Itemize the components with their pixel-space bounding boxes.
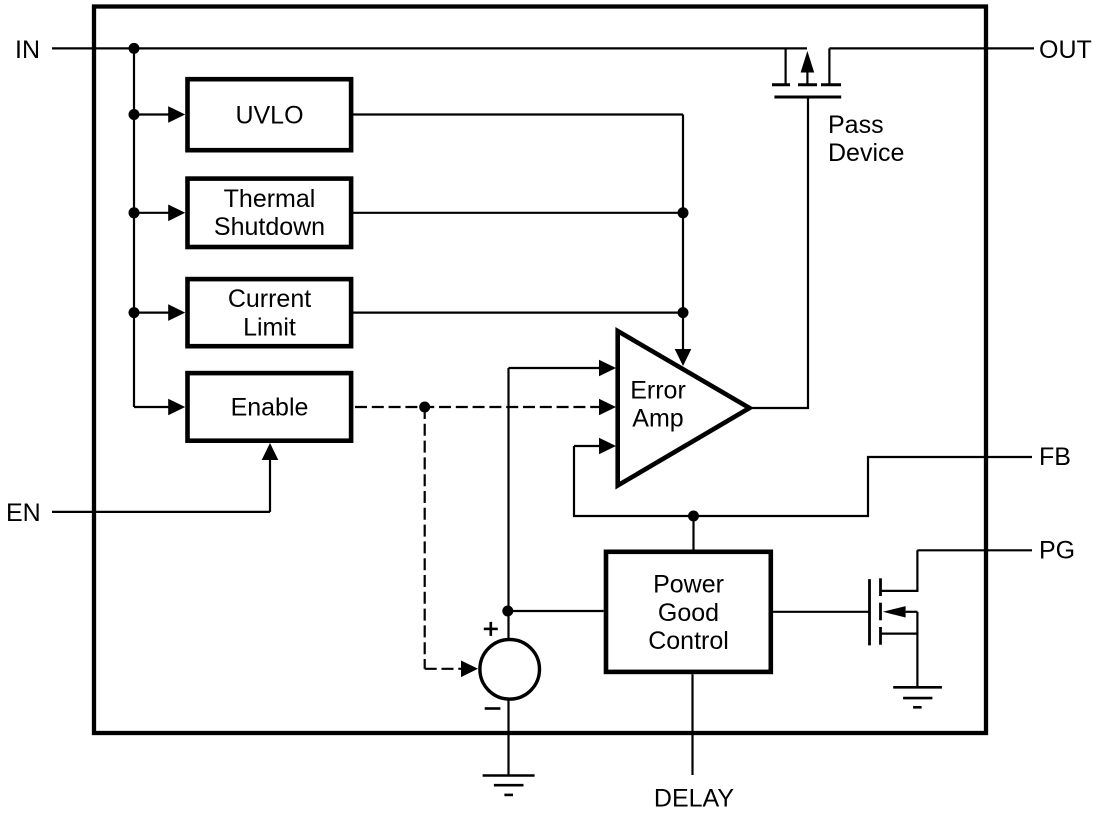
svg-text:OUT: OUT xyxy=(1039,36,1092,64)
svg-text:Enable: Enable xyxy=(231,394,309,422)
svg-text:Control: Control xyxy=(648,627,729,655)
svg-text:Limit: Limit xyxy=(243,313,296,341)
svg-text:PG: PG xyxy=(1039,537,1075,565)
svg-text:Shutdown: Shutdown xyxy=(214,213,325,241)
svg-text:UVLO: UVLO xyxy=(235,102,303,130)
svg-text:EN: EN xyxy=(6,499,41,527)
svg-text:Power: Power xyxy=(653,570,724,598)
svg-text:Pass: Pass xyxy=(828,111,884,139)
svg-text:Amp: Amp xyxy=(632,405,683,433)
svg-text:Good: Good xyxy=(658,599,719,627)
svg-text:Current: Current xyxy=(228,285,311,313)
svg-text:Thermal: Thermal xyxy=(224,185,316,213)
svg-text:Device: Device xyxy=(828,139,904,167)
svg-text:DELAY: DELAY xyxy=(654,785,734,813)
svg-text:Error: Error xyxy=(630,377,686,405)
svg-text:FB: FB xyxy=(1039,443,1071,471)
svg-text:IN: IN xyxy=(15,36,40,64)
